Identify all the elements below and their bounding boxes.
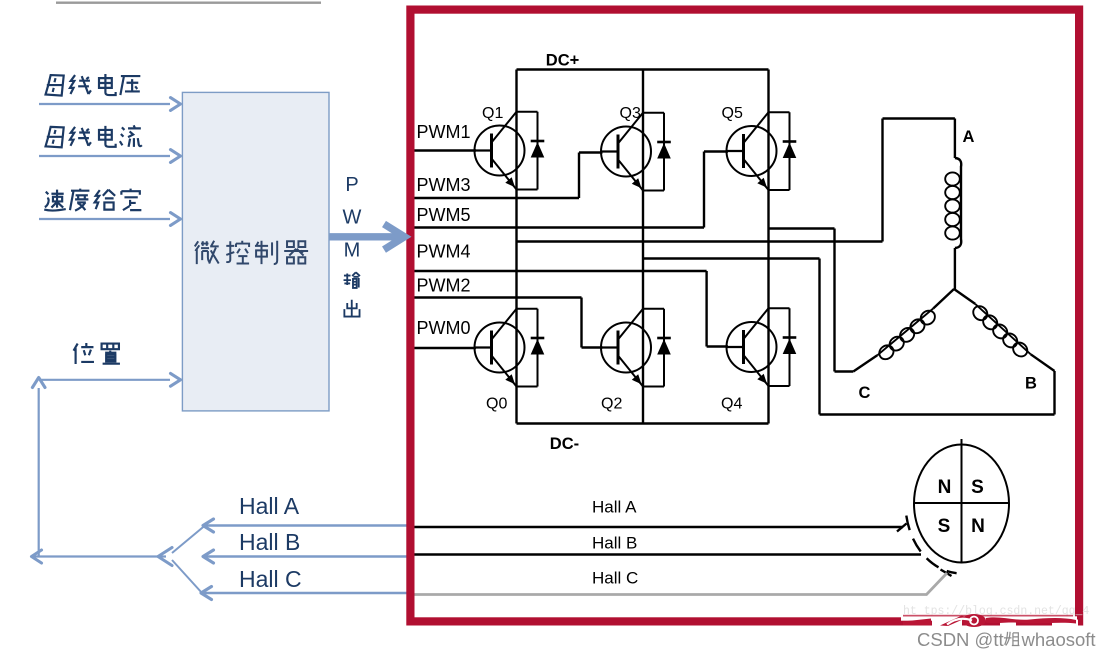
svg-text:Hall A: Hall A (239, 493, 300, 519)
svg-text:P: P (345, 174, 358, 196)
svg-text:A: A (963, 128, 975, 146)
svg-text:whaosoft: whaosoft (1021, 629, 1096, 650)
svg-text:N: N (938, 477, 952, 498)
svg-text:PWM1: PWM1 (417, 122, 471, 142)
svg-text:Hall C: Hall C (592, 569, 638, 588)
svg-text:Hall C: Hall C (239, 566, 302, 592)
svg-text:N: N (971, 516, 985, 537)
svg-text:Q0: Q0 (486, 396, 507, 413)
svg-text:M: M (344, 240, 361, 262)
svg-text:PWM4: PWM4 (417, 242, 471, 262)
svg-text:DC-: DC- (550, 435, 579, 453)
svg-text:W: W (343, 207, 362, 229)
svg-text:Q5: Q5 (722, 105, 743, 122)
svg-text:DC+: DC+ (546, 52, 579, 70)
svg-text:CSDN @tt: CSDN @tt (917, 629, 1004, 650)
svg-text:Hall A: Hall A (592, 498, 637, 517)
svg-text:PWM3: PWM3 (417, 175, 471, 195)
svg-text:S: S (971, 477, 984, 498)
svg-text:Q2: Q2 (601, 396, 622, 413)
svg-text:PWM2: PWM2 (417, 276, 471, 296)
svg-text:PWM5: PWM5 (417, 205, 471, 225)
svg-text:C: C (859, 384, 871, 402)
svg-text:Q1: Q1 (482, 105, 503, 122)
svg-text:Q3: Q3 (620, 105, 641, 122)
svg-text:S: S (938, 516, 951, 537)
svg-text:PWM0: PWM0 (417, 318, 471, 338)
svg-text:Hall B: Hall B (592, 534, 637, 553)
svg-text:Q4: Q4 (721, 396, 742, 413)
svg-text:Hall B: Hall B (239, 529, 300, 555)
svg-text:B: B (1025, 375, 1037, 393)
